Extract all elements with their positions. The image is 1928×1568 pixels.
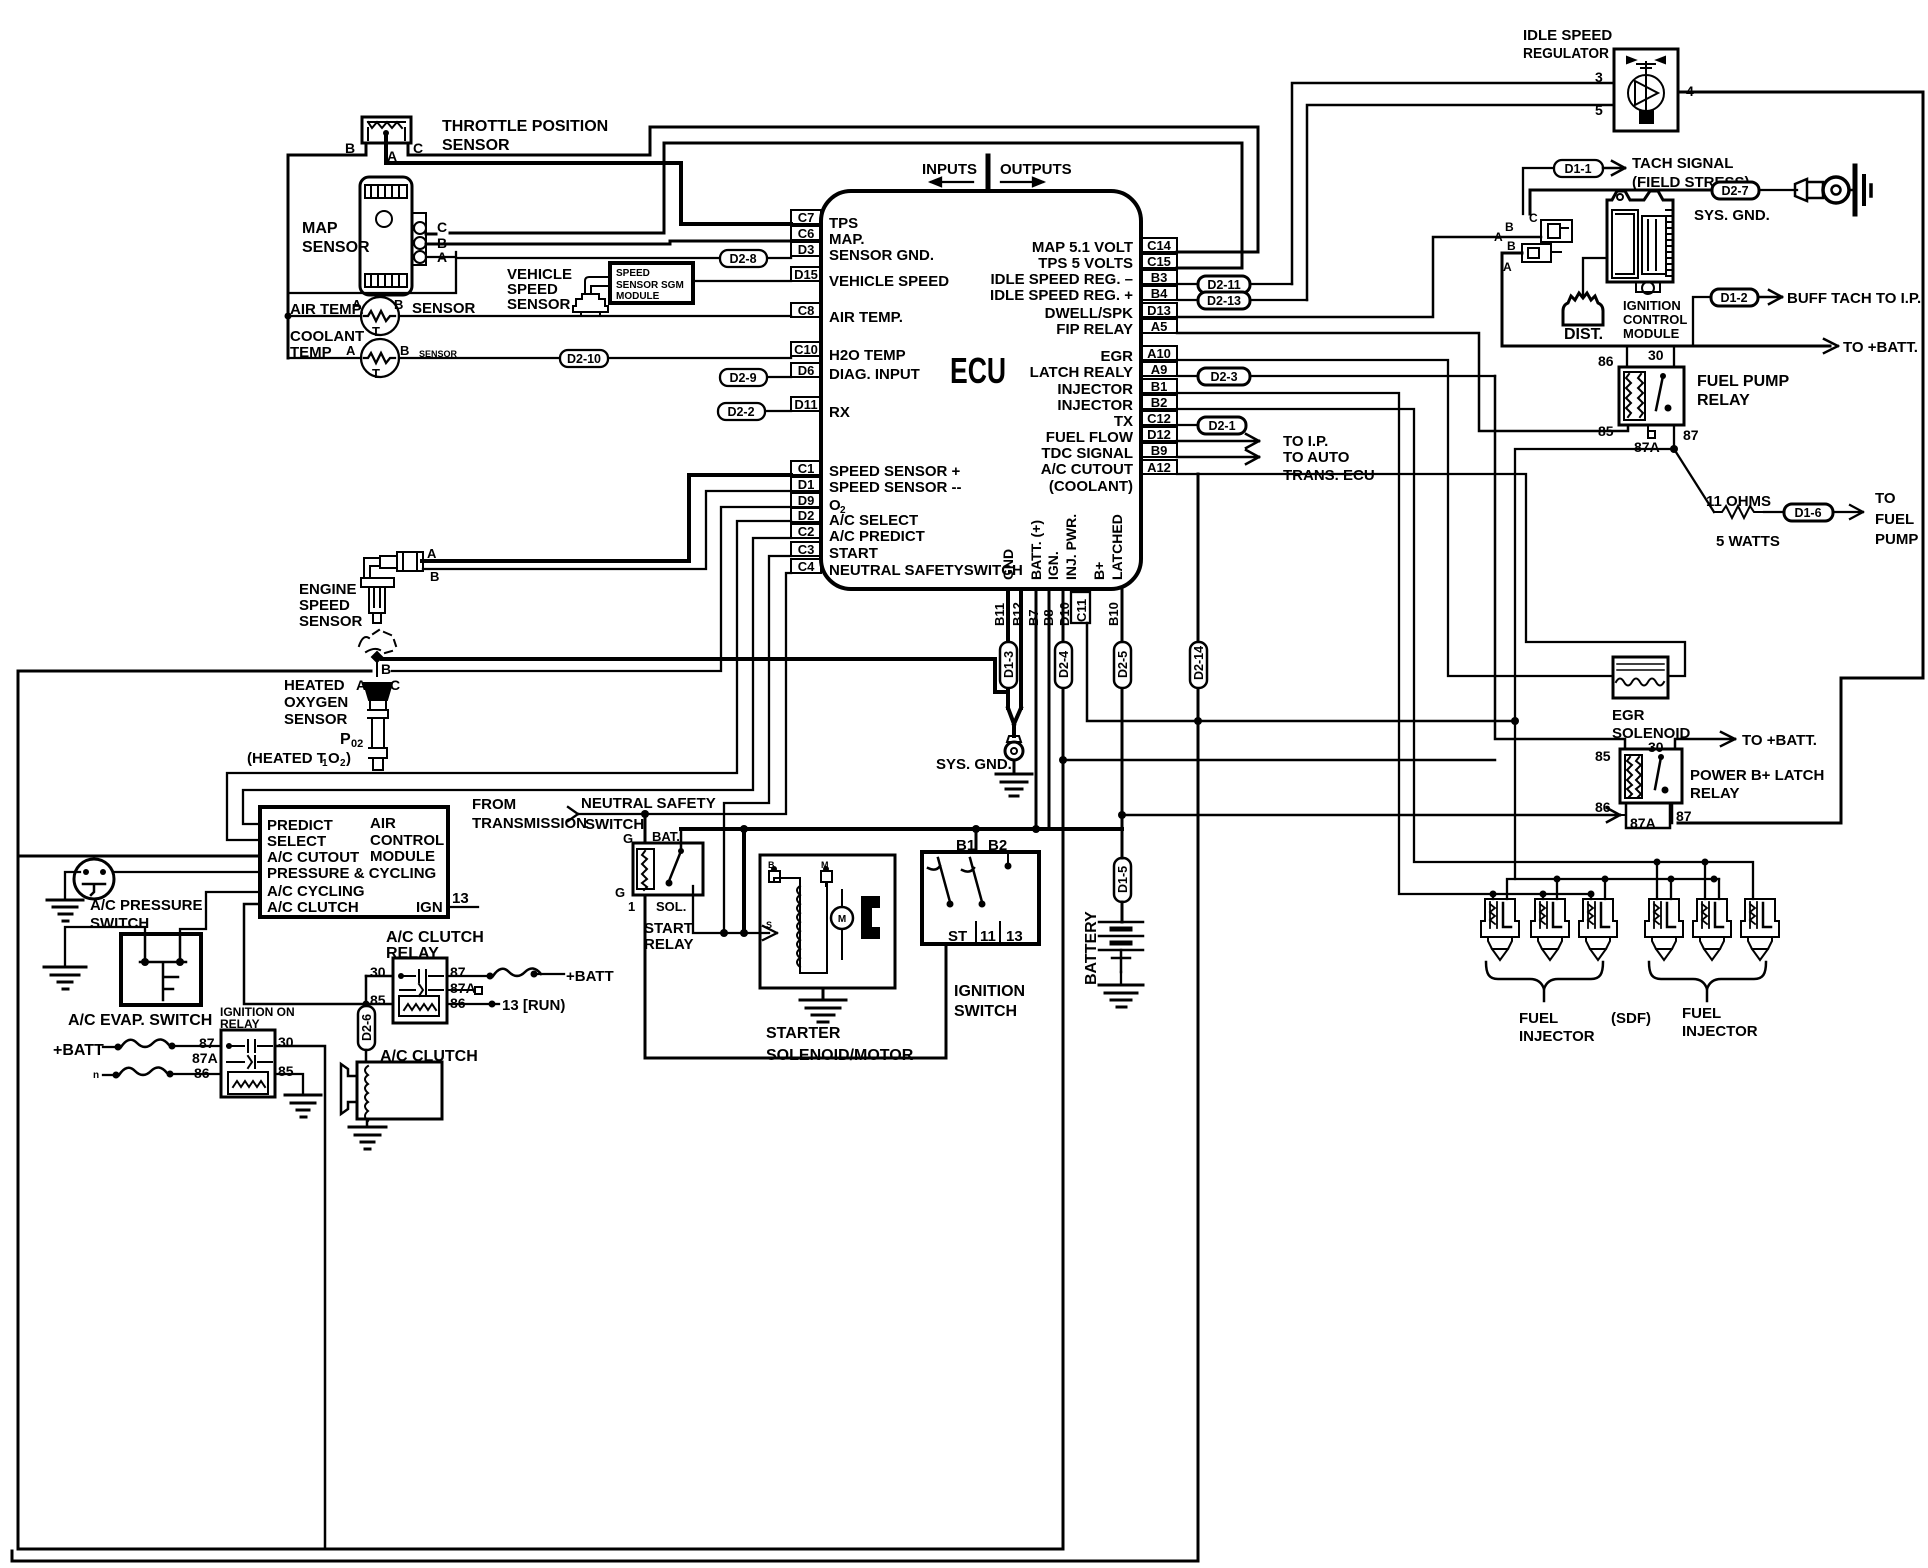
svg-text:A: A: [1503, 260, 1512, 274]
inputs arrow: [931, 178, 973, 186]
svg-text:B: B: [400, 343, 409, 358]
wire module A pin to +batt rail: [1502, 253, 1522, 346]
svg-text:G: G: [615, 885, 625, 900]
svg-text:INJECTOR: INJECTOR: [1682, 1023, 1758, 1040]
svg-text:TO AUTO: TO AUTO: [1283, 449, 1350, 466]
svg-text:IGN.: IGN.: [1045, 551, 1061, 580]
wire ECU B2 to injector rail 2: [1177, 409, 1753, 899]
svg-text:C2: C2: [798, 524, 815, 539]
svg-text:P: P: [340, 731, 351, 748]
svg-text:INJECTOR: INJECTOR: [1057, 381, 1133, 398]
svg-text:GND: GND: [1000, 549, 1016, 580]
svg-text:D2-5: D2-5: [1116, 651, 1130, 678]
svg-text:A10: A10: [1147, 346, 1171, 361]
svg-text:87: 87: [199, 1035, 215, 1051]
A/C evap switch box: [121, 934, 201, 1005]
svg-text:MODULE: MODULE: [370, 848, 435, 865]
left border bus: [17, 855, 19, 857]
ground symbol sys gnd: [996, 774, 1032, 796]
svg-text:A/C EVAP. SWITCH: A/C EVAP. SWITCH: [68, 1012, 212, 1029]
injector group 1 brace: [1486, 962, 1603, 989]
svg-text:86: 86: [1598, 353, 1614, 369]
svg-text:13 [RUN): 13 [RUN): [502, 997, 565, 1014]
svg-text:IDLE SPEED: IDLE SPEED: [1523, 27, 1612, 44]
wire ECU A12 loop to EGR right: [1177, 474, 1685, 676]
svg-text:A/C CLUTCH: A/C CLUTCH: [386, 929, 484, 946]
wire B11 ground: [1006, 589, 1010, 708]
svg-text:TO +BATT.: TO +BATT.: [1742, 732, 1817, 749]
clutch relay 86 to 13 run: [447, 1003, 490, 1005]
svg-text:TDC SIGNAL: TDC SIGNAL: [1041, 445, 1133, 462]
svg-text:A/C CLUTCH: A/C CLUTCH: [380, 1048, 478, 1065]
ECU bottom inside labels (rotated): [1000, 514, 1125, 580]
svg-text:EGR: EGR: [1100, 348, 1133, 365]
svg-text:S: S: [766, 920, 772, 930]
power B+ latch relay K2: [1620, 749, 1682, 803]
svg-text:INPUTS: INPUTS: [922, 161, 977, 178]
svg-text:D3: D3: [798, 242, 815, 257]
solenoid coil: [797, 886, 800, 967]
ignition-on relay 85 to ground: [275, 1074, 303, 1094]
starter solenoid/motor box: [760, 855, 895, 988]
wire ECU C2 to module predict: [243, 538, 791, 824]
svg-text:DIAG. INPUT: DIAG. INPUT: [829, 366, 920, 383]
start relay K3: [633, 843, 703, 895]
svg-text:B4: B4: [1151, 286, 1168, 301]
svg-text:B+: B+: [1091, 562, 1107, 580]
svg-text:85: 85: [278, 1063, 294, 1079]
wire module A/C cutout to left border: [18, 855, 260, 858]
ignition-on relay coil: [228, 1072, 268, 1094]
wire engine speed B to ECU D1: [423, 491, 791, 569]
svg-text:D12: D12: [1147, 427, 1171, 442]
svg-text:87: 87: [1676, 808, 1692, 824]
tach D1-1 connector: [1523, 168, 1554, 214]
svg-text:86: 86: [1595, 799, 1611, 815]
C11 pin box: [1071, 592, 1090, 623]
svg-text:D2-9: D2-9: [729, 371, 756, 385]
svg-text:FUEL: FUEL: [1519, 1010, 1558, 1027]
wire throttle A to ECU C7: [386, 133, 791, 224]
svg-text:SOL.: SOL.: [656, 899, 686, 914]
svg-text:C3: C3: [798, 542, 815, 557]
svg-text:30: 30: [278, 1034, 294, 1050]
svg-text:BUFF TACH TO I.P.: BUFF TACH TO I.P.: [1787, 290, 1921, 307]
svg-text:START: START: [829, 545, 878, 562]
wire 87 to injector feed: [1515, 449, 1674, 879]
svg-text:FUEL PUMP: FUEL PUMP: [1697, 373, 1789, 390]
solenoid M pad: [821, 871, 832, 882]
wire ECU D13 to module connector: [1177, 237, 1541, 317]
svg-text:B2: B2: [1151, 395, 1168, 410]
svg-text:D2-1: D2-1: [1208, 419, 1235, 433]
svg-text:CONTROL: CONTROL: [1623, 312, 1687, 327]
svg-text:B: B: [1507, 239, 1516, 253]
wire B4 to idle regulator pin 5: [1307, 105, 1614, 300]
svg-text:B2: B2: [988, 837, 1007, 854]
svg-text:D2-14: D2-14: [1192, 646, 1206, 680]
wire engine speed A to ECU C1: [422, 475, 791, 561]
ECU right pin boxes: [1141, 238, 1177, 474]
svg-text:ECU: ECU: [950, 350, 1006, 391]
wire throttle C to ECU C14 via top: [408, 127, 1258, 252]
svg-text:SWITCH: SWITCH: [585, 816, 644, 833]
injector 4: [1645, 899, 1683, 960]
svg-text:TO: TO: [1875, 490, 1896, 507]
svg-text:OXYGEN: OXYGEN: [284, 694, 348, 711]
air temp sensor thermistor: [361, 297, 399, 339]
svg-text:D2-6: D2-6: [360, 1014, 374, 1041]
distributor cap: [1563, 293, 1603, 325]
svg-text:(SDF): (SDF): [1611, 1010, 1651, 1027]
svg-text:BATT. (+): BATT. (+): [1028, 520, 1044, 580]
svg-text:C6: C6: [798, 226, 815, 241]
svg-text:DIST.: DIST.: [1564, 326, 1603, 343]
wire ECU A10 to EGR solenoid: [1177, 360, 1613, 676]
fuel pump relay K1: [1619, 367, 1684, 425]
+batt rail above fuel pump relay: [1502, 345, 1830, 348]
wire relay 1 leg down and loop: [645, 895, 946, 1058]
svg-text:C14: C14: [1147, 238, 1172, 253]
svg-text:02: 02: [351, 738, 363, 750]
svg-text:TX: TX: [1114, 413, 1133, 430]
ignition control module body: [1607, 191, 1673, 294]
svg-text:30: 30: [1648, 347, 1664, 363]
module IGN 13 stub: [448, 906, 478, 908]
svg-text:TRANSMISSION: TRANSMISSION: [472, 815, 587, 832]
wire relay SOL to solenoid S: [693, 886, 777, 940]
svg-text:D1-5: D1-5: [1116, 866, 1130, 893]
svg-text:MODULE: MODULE: [616, 291, 660, 302]
svg-text:B9: B9: [1151, 443, 1168, 458]
svg-text:C4: C4: [798, 559, 815, 574]
ground Y merge: [1008, 708, 1021, 736]
svg-text:TACH SIGNAL: TACH SIGNAL: [1632, 155, 1733, 172]
ECU bottom pin numbers (rotated): [992, 599, 1121, 626]
svg-text:D2-11: D2-11: [1207, 278, 1240, 292]
svg-text:85: 85: [1595, 748, 1611, 764]
svg-text:TRANS. ECU: TRANS. ECU: [1283, 467, 1375, 484]
svg-text:ENGINE: ENGINE: [299, 581, 357, 598]
outer bottom border: [12, 1551, 1198, 1561]
svg-text:A/C CLUTCH: A/C CLUTCH: [267, 899, 359, 916]
svg-text:INJ. PWR.: INJ. PWR.: [1063, 514, 1079, 580]
ECU U1 box: [821, 191, 1141, 589]
svg-text:C1: C1: [798, 461, 815, 476]
svg-text:87A: 87A: [450, 980, 476, 996]
ignition-on relay contacts: [227, 1040, 272, 1052]
latch relay 87A box: [1626, 803, 1670, 828]
connector D2-1 on ECU C12: [1177, 424, 1198, 426]
injector 5: [1693, 899, 1731, 960]
wire MAP A sensor ground to ECU D3 via D2-8: [288, 252, 791, 293]
svg-text:n: n: [93, 1070, 99, 1081]
svg-text:D2-2: D2-2: [727, 405, 754, 419]
svg-text:A: A: [427, 546, 437, 561]
wire rail to solenoid S junction: [742, 829, 746, 933]
wire B12 ground: [1019, 589, 1023, 708]
svg-text:STARTER: STARTER: [766, 1025, 841, 1042]
svg-text:MAP 5.1 VOLT: MAP 5.1 VOLT: [1032, 239, 1133, 256]
svg-text:B11: B11: [992, 603, 1007, 626]
svg-text:PREDICT: PREDICT: [267, 817, 333, 834]
svg-text:RELAY: RELAY: [644, 936, 693, 953]
A/C pressure switch: [74, 859, 114, 899]
svg-text:D1-6: D1-6: [1794, 506, 1821, 520]
svg-text:11 OHMS: 11 OHMS: [1706, 493, 1771, 510]
svg-text:87A: 87A: [1634, 439, 1660, 455]
wire ECU A5 to fuel pump relay 85: [1177, 333, 1628, 431]
connector D1-6: [1784, 504, 1833, 521]
svg-text:C: C: [1529, 211, 1538, 225]
svg-text:SPEED SENSOR +: SPEED SENSOR +: [829, 463, 961, 480]
svg-text:D1-3: D1-3: [1002, 651, 1016, 678]
svg-text:POWER B+ LATCH: POWER B+ LATCH: [1690, 767, 1824, 784]
svg-text:D2-7: D2-7: [1721, 184, 1748, 198]
svg-text:B: B: [768, 860, 775, 870]
wire pressure switch to ground: [65, 872, 80, 900]
svg-text:SWITCH: SWITCH: [90, 915, 149, 932]
svg-text:11: 11: [980, 928, 996, 945]
svg-text:FUEL FLOW: FUEL FLOW: [1046, 429, 1134, 446]
svg-text:SENSOR: SENSOR: [284, 711, 348, 728]
wire O2 B to sys-gnd junction: [382, 659, 1008, 692]
A/C clutch coil: [365, 1050, 368, 1062]
svg-text:LATCHED: LATCHED: [1109, 514, 1125, 580]
connector D2-13 on ECU B4: [1177, 299, 1307, 301]
svg-text:RELAY: RELAY: [386, 945, 439, 962]
heated oxygen sensor exhaust squiggle: [359, 630, 396, 653]
svg-text:IGN: IGN: [416, 899, 443, 916]
connector D2-4: [1055, 642, 1072, 688]
svg-text:D1-1: D1-1: [1564, 162, 1591, 176]
wire ECU C4 neutral safety: [578, 573, 791, 814]
svg-text:IDLE SPEED REG. +: IDLE SPEED REG. +: [990, 287, 1133, 304]
svg-text:A5: A5: [1151, 319, 1168, 334]
throttle pin A dot: [383, 130, 389, 136]
wire A9 down to power latch relay 85: [1495, 376, 1625, 749]
wire B10 latched down: [1121, 589, 1124, 858]
svg-text:13: 13: [1006, 928, 1023, 945]
module connector lower: [1522, 244, 1561, 262]
svg-text:RELAY: RELAY: [1690, 785, 1739, 802]
outputs arrow: [1001, 178, 1043, 186]
fuel pump relay 87A stub: [1648, 425, 1655, 438]
start relay coil: [637, 849, 654, 890]
svg-text:A: A: [356, 677, 366, 693]
wire D10 to injector power vertical: [1063, 759, 1495, 762]
start relay contact: [669, 843, 681, 881]
ECU left inside labels: [829, 215, 1023, 579]
svg-text:A/C PREDICT: A/C PREDICT: [829, 528, 925, 545]
svg-text:IGNITION: IGNITION: [1623, 298, 1681, 313]
connector D1-3: [1000, 642, 1017, 688]
svg-text:85: 85: [370, 992, 386, 1008]
svg-text:SENSOR: SENSOR: [302, 239, 370, 256]
battery ground: [1099, 985, 1143, 1007]
svg-text:NEUTRAL SAFETY: NEUTRAL SAFETY: [581, 795, 716, 812]
wire relay to BAT rail: [680, 829, 683, 843]
rail junction dots: [1490, 717, 1718, 898]
motor M: [831, 907, 853, 929]
clutch relay contacts: [400, 970, 443, 982]
wire idle regulator pin 4 loop to latch relay 87: [1678, 92, 1923, 823]
wire MAP C to ECU C15 via top: [426, 143, 1242, 268]
solenoid B pad: [769, 871, 780, 882]
clutch relay 87 to +batt: [447, 975, 487, 977]
svg-text:D9: D9: [798, 493, 815, 508]
svg-text:G: G: [623, 831, 633, 846]
sys gnd terminal top right: [1759, 189, 1797, 191]
svg-text:87: 87: [450, 964, 466, 980]
svg-text:1: 1: [628, 899, 635, 914]
svg-text:MAP: MAP: [302, 220, 338, 237]
svg-text:C12: C12: [1147, 411, 1171, 426]
svg-text:SENSOR: SENSOR: [507, 296, 571, 313]
svg-text:FUEL: FUEL: [1682, 1005, 1721, 1022]
clutch relay 87A stub: [447, 987, 482, 994]
wire D10 inj power down: [1062, 589, 1065, 1549]
neutral safety junction dot: [641, 810, 649, 818]
injector 2: [1531, 899, 1569, 960]
svg-text:EGR: EGR: [1612, 707, 1645, 724]
svg-text:TPS 5 VOLTS: TPS 5 VOLTS: [1038, 255, 1133, 272]
wire ECU B1 to injector rail 1: [1177, 393, 1591, 894]
fuel pump relay switch: [1656, 376, 1663, 410]
svg-text:OUTPUTS: OUTPUTS: [1000, 161, 1072, 178]
svg-text:A/C CUTOUT: A/C CUTOUT: [267, 849, 359, 866]
clutch relay 30 wire: [366, 975, 393, 978]
svg-text:A/C CYCLING: A/C CYCLING: [267, 883, 365, 900]
vehicle speed sensor symbol: [573, 277, 610, 316]
svg-text:MODULE: MODULE: [1623, 326, 1680, 341]
svg-text:A/C CUTOUT: A/C CUTOUT: [1041, 461, 1133, 478]
svg-text:+BATT: +BATT: [566, 968, 614, 985]
svg-text:A12: A12: [1147, 460, 1171, 475]
svg-text:THROTTLE POSITION: THROTTLE POSITION: [442, 118, 608, 135]
svg-text:IGNITION: IGNITION: [954, 983, 1025, 1000]
injector feed rail (C11/87): [1507, 879, 1719, 899]
injector rail drops: [1493, 862, 1719, 899]
svg-text:D2-8: D2-8: [729, 252, 756, 266]
svg-text:D1: D1: [798, 477, 815, 492]
svg-text:INJECTOR: INJECTOR: [1519, 1028, 1595, 1045]
svg-text:SENSOR GND.: SENSOR GND.: [829, 247, 934, 264]
svg-text:87: 87: [1683, 427, 1699, 443]
ECU right inside labels: [990, 239, 1134, 495]
wire ECU C3 start to solenoid S: [724, 556, 791, 933]
svg-text:B: B: [1505, 220, 1514, 234]
svg-text:H2O TEMP: H2O TEMP: [829, 347, 906, 364]
heated oxygen sensor body: [364, 652, 392, 770]
svg-text:MAP.: MAP.: [829, 231, 865, 248]
svg-text:30: 30: [1648, 739, 1664, 755]
svg-text:RX: RX: [829, 404, 850, 421]
svg-text:VEHICLE SPEED: VEHICLE SPEED: [829, 273, 949, 290]
svg-text:SENSOR: SENSOR: [442, 137, 510, 154]
svg-text:FROM: FROM: [472, 796, 516, 813]
MAP sensor M1: [360, 177, 426, 295]
svg-text:CONTROL: CONTROL: [370, 832, 444, 849]
wire dist to module: [1583, 258, 1607, 296]
idle speed regulator valve: [1627, 57, 1665, 123]
svg-text:PUMP: PUMP: [1875, 531, 1918, 548]
svg-text:B10: B10: [1106, 602, 1121, 626]
svg-text:M: M: [838, 914, 846, 925]
solenoid ground: [800, 988, 846, 1022]
D1-2 connector and buff tach: [1693, 297, 1711, 346]
EGR solenoid box: [1613, 657, 1668, 698]
idle speed regulator box: [1614, 49, 1678, 131]
svg-text:+BATT: +BATT: [53, 1042, 104, 1059]
fuel pump relay coil: [1624, 372, 1645, 420]
svg-text:TO I.P.: TO I.P.: [1283, 433, 1328, 450]
svg-text:13: 13: [452, 890, 469, 907]
latch relay switch: [1655, 757, 1661, 789]
tach arrow: [1603, 161, 1625, 175]
svg-text:SPEED: SPEED: [299, 597, 350, 614]
svg-text:BAT.: BAT.: [652, 829, 680, 844]
wire O2 C to ECU D9: [392, 507, 791, 671]
ignition B1 stub: [975, 829, 978, 852]
connector D1-5 battery feed: [1114, 858, 1131, 902]
svg-text:A/C PRESSURE: A/C PRESSURE: [90, 897, 203, 914]
svg-text:): ): [346, 750, 351, 767]
svg-text:NEUTRAL SAFETYSWITCH: NEUTRAL SAFETYSWITCH: [829, 562, 1023, 579]
wire ECU D2 to module select: [227, 521, 791, 840]
clutch relay coil: [399, 996, 439, 1016]
wire to D2-7: [1530, 190, 1712, 214]
motor bracket: [861, 896, 880, 939]
wire coolant temp to ECU C10 via D2-10: [288, 357, 791, 359]
wire SGM module to ECU D15: [693, 280, 791, 282]
connector D2-8: [720, 250, 767, 267]
svg-text:30: 30: [370, 964, 386, 980]
svg-text:C7: C7: [798, 210, 815, 225]
wire ECU C11 to injector feed: [1087, 623, 1515, 721]
svg-text:D6: D6: [798, 363, 815, 378]
svg-text:START: START: [644, 920, 693, 937]
svg-text:SWITCH: SWITCH: [954, 1003, 1017, 1020]
wire MAP B to ECU C6: [426, 241, 791, 244]
svg-text:SENSOR: SENSOR: [412, 300, 476, 317]
engine speed sensor: [361, 552, 423, 623]
svg-text:T: T: [372, 324, 380, 339]
svg-text:(COOLANT): (COOLANT): [1049, 478, 1133, 495]
wire pressure switch to module: [114, 871, 260, 873]
svg-text:A: A: [352, 297, 362, 312]
svg-text:SYS. GND.: SYS. GND.: [1694, 207, 1770, 224]
wire A12 D2-14 down to border: [1197, 474, 1200, 1561]
wire 87 to ballast resistor: [1674, 449, 1714, 512]
wire evap right to module cycling: [180, 892, 260, 934]
svg-text:D1-2: D1-2: [1720, 291, 1747, 305]
svg-text:RELAY: RELAY: [1697, 392, 1750, 409]
svg-text:SELECT: SELECT: [267, 833, 326, 850]
wire battery rail to latch relay 86: [1122, 808, 1620, 822]
svg-text:SENSOR: SENSOR: [299, 613, 363, 630]
svg-text:RELAY: RELAY: [220, 1017, 260, 1031]
svg-text:D2-3: D2-3: [1210, 370, 1237, 384]
wire B3 to idle regulator pin 3: [1292, 83, 1614, 284]
injector 3: [1579, 899, 1617, 960]
svg-text:ST: ST: [948, 928, 967, 945]
svg-text:SPEED: SPEED: [616, 268, 650, 279]
ignition switch box: [922, 852, 1039, 944]
svg-text:REGULATOR: REGULATOR: [1523, 45, 1609, 62]
svg-text:FUEL: FUEL: [1875, 511, 1914, 528]
svg-text:B1: B1: [956, 837, 975, 854]
